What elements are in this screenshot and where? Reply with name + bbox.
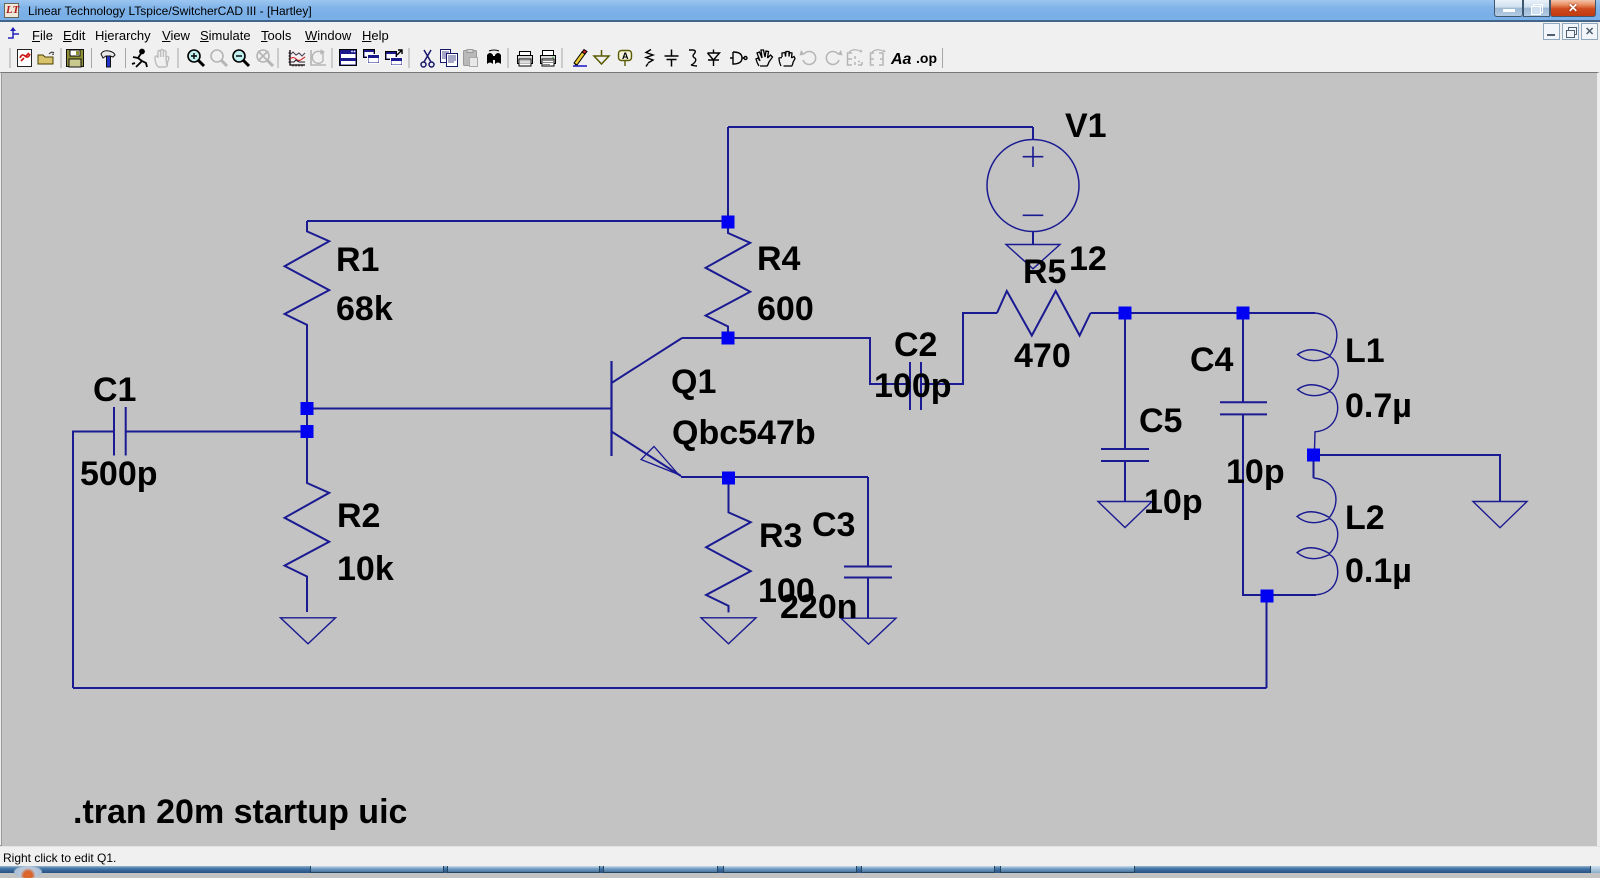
wire C5 top lead [1124, 313, 1126, 449]
wire C4 bottom lead to tank node [1243, 414, 1316, 595]
capacitor C4 [1220, 402, 1267, 414]
rotate icon (disabled) [871, 49, 886, 65]
svg-text:R4: R4 [757, 240, 801, 278]
value 68k [336, 290, 393, 328]
wire tank bottom riser [1266, 596, 1268, 688]
halt (running man) icon [132, 50, 147, 68]
copy icon [441, 50, 458, 67]
svg-text:0.1µ: 0.1µ [1345, 552, 1412, 590]
wire bottom rail [73, 687, 1267, 689]
resistor R4 [706, 228, 751, 338]
label V1 [1065, 107, 1107, 145]
svg-text:0.7µ: 0.7µ [1345, 387, 1412, 425]
svg-text:500p: 500p [80, 455, 158, 493]
resistor R1 [285, 221, 330, 337]
node collector junction [722, 332, 735, 345]
node R5/C5 junction [1119, 307, 1132, 320]
ground below C5 [1098, 502, 1152, 528]
print setup icon [518, 52, 533, 67]
value 100p [874, 367, 952, 405]
svg-text:470: 470 [1014, 337, 1071, 375]
node C4 top junction [1237, 307, 1250, 320]
drag (closed hand) icon [779, 52, 795, 67]
wire L1-L2 output node [1313, 455, 1315, 478]
svg-text:A: A [622, 51, 629, 61]
component icon [730, 52, 747, 64]
wire Q1 collector to C2 [682, 338, 910, 384]
waveform icon [288, 49, 305, 67]
svg-text:C1: C1 [93, 371, 136, 409]
value 470 [1014, 337, 1071, 375]
svg-text:100p: 100p [874, 367, 952, 405]
label C5 [1139, 402, 1182, 440]
node emitter junction [722, 472, 735, 485]
svg-text:R3: R3 [759, 517, 802, 555]
svg-text:L2: L2 [1345, 499, 1385, 537]
node tank bottom junction [1261, 590, 1274, 603]
tile windows icon [340, 50, 357, 66]
label R5 [1023, 253, 1066, 291]
spice directive .tran [73, 793, 407, 831]
label R4 [757, 240, 801, 278]
title bar [0, 0, 1600, 22]
cascade jump icon [386, 50, 403, 66]
label R2 [337, 497, 380, 535]
node base junction lower [301, 425, 314, 438]
move (open hand) icon [756, 50, 773, 66]
wire top rail V+ [728, 126, 1033, 128]
zoom extents icon (disabled) [257, 50, 273, 66]
wire node stack [306, 409, 308, 432]
ground below R2 [281, 618, 336, 644]
transistor Q1 [612, 338, 683, 476]
svg-text:600: 600 [757, 290, 814, 328]
ground below R3 [701, 618, 756, 644]
node base junction upper [301, 402, 314, 415]
wire C1 right to node [126, 431, 307, 433]
zoom out icon [233, 50, 249, 66]
node L1/L2 output junction [1307, 449, 1320, 462]
svg-text:10p: 10p [1226, 453, 1285, 491]
svg-text:220n: 220n [780, 588, 858, 626]
svg-text:C2: C2 [894, 326, 937, 364]
node R1/R4 top junction [722, 216, 735, 229]
wire C5 bottom lead [1124, 461, 1126, 502]
value 500p [80, 455, 158, 493]
label L2 [1345, 499, 1385, 537]
svg-text:68k: 68k [336, 290, 393, 328]
wire R1 bottom to base node [306, 337, 308, 409]
wire C1 left down to bottom rail [73, 432, 114, 689]
svg-text:Qbc547b: Qbc547b [672, 414, 816, 452]
value 0.7u [1345, 387, 1412, 425]
resistor icon [646, 50, 653, 67]
plot settings icon (disabled) [311, 50, 326, 65]
wire C3 top lead [867, 477, 869, 567]
value Qbc547b [672, 414, 816, 452]
undo icon (disabled) [800, 50, 816, 64]
wire output to ground [1314, 455, 1501, 502]
label L1 [1345, 332, 1385, 370]
menu bar [0, 22, 1600, 45]
voltage source V1 [987, 140, 1079, 245]
svg-text:C3: C3 [812, 506, 855, 544]
wire top rail down to R1/R4 node [727, 127, 729, 222]
capacitor C1 [114, 407, 126, 456]
window buttons [1494, 0, 1523, 17]
svg-text:.op: .op [916, 50, 937, 66]
label net icon [619, 51, 632, 67]
svg-text:R2: R2 [337, 497, 380, 535]
value 100 [758, 572, 815, 610]
label Q1 [671, 363, 716, 401]
find icon [487, 50, 501, 64]
ground below C3 [841, 618, 896, 644]
ground below V1 [1006, 245, 1060, 269]
inductor L1 [1298, 313, 1339, 450]
text Aa icon [890, 51, 912, 68]
svg-text:R5: R5 [1023, 253, 1066, 291]
capacitor C2 [910, 362, 921, 410]
wire C4 top lead [1242, 313, 1244, 402]
wire R1 top to node [307, 220, 728, 222]
value 10p of C4 [1226, 453, 1285, 491]
svg-text:C4: C4 [1190, 341, 1234, 379]
new schematic icon [18, 50, 32, 67]
value 600 [757, 290, 814, 328]
wire V1 top lead [1032, 127, 1034, 140]
spice directive .op icon [916, 50, 937, 66]
value 220n [780, 588, 858, 626]
resistor R3 [706, 484, 751, 612]
inductor icon [689, 50, 697, 66]
print icon [541, 51, 556, 67]
resistor R5 [997, 291, 1091, 336]
svg-text:C5: C5 [1139, 402, 1182, 440]
svg-text:Q1: Q1 [671, 363, 716, 401]
ground symbol icon [594, 50, 609, 64]
svg-text:.tran 20m startup uic: .tran 20m startup uic [73, 793, 407, 831]
svg-text:R1: R1 [336, 241, 379, 279]
cut icon [421, 50, 434, 67]
label R3 [759, 517, 802, 555]
value 12 [1069, 240, 1107, 278]
resistor R2 [285, 438, 330, 612]
ground at output [1473, 502, 1527, 528]
wire C3 bottom lead [867, 578, 869, 619]
diode icon [708, 50, 720, 67]
label C3 [812, 506, 855, 544]
label C4 [1190, 341, 1234, 379]
redo icon (disabled) [826, 50, 842, 64]
svg-text:Aa: Aa [890, 51, 912, 68]
svg-text:10p: 10p [1144, 483, 1203, 521]
open folder icon [38, 52, 54, 64]
save icon [67, 50, 84, 68]
taskbar [0, 866, 1600, 873]
zoom in icon [188, 50, 204, 66]
zoom back icon (disabled) [211, 50, 227, 66]
value 10k [337, 550, 394, 588]
wire R5 right to L1 [1091, 312, 1316, 314]
wire Q1 emitter to R3/C3 [681, 476, 868, 478]
MDI child window buttons [1543, 23, 1560, 40]
label C2 [894, 326, 937, 364]
svg-text:12: 12 [1069, 240, 1107, 278]
capacitor icon [665, 50, 679, 67]
run (hammer) icon [101, 51, 115, 67]
paste icon (disabled) [464, 50, 478, 67]
label R1 [336, 241, 379, 279]
svg-text:10k: 10k [337, 550, 394, 588]
capacitor C5 [1101, 449, 1149, 461]
toolbar [0, 45, 1600, 72]
pause hand icon (disabled) [155, 50, 169, 68]
value 10p of C5 [1144, 483, 1203, 521]
inductor L2 [1297, 478, 1338, 595]
wire (pencil) icon [573, 50, 587, 67]
capacitor C3 [844, 567, 892, 578]
status bar [0, 846, 1600, 866]
mirror icon (disabled) [848, 49, 863, 65]
value 0.1u [1345, 552, 1412, 590]
cascade windows icon [364, 50, 380, 64]
wire base node to Q1 base [307, 408, 611, 410]
label C1 [93, 371, 136, 409]
svg-text:V1: V1 [1065, 107, 1107, 145]
wire C2 right up to R5 [921, 313, 997, 384]
svg-text:L1: L1 [1345, 332, 1385, 370]
